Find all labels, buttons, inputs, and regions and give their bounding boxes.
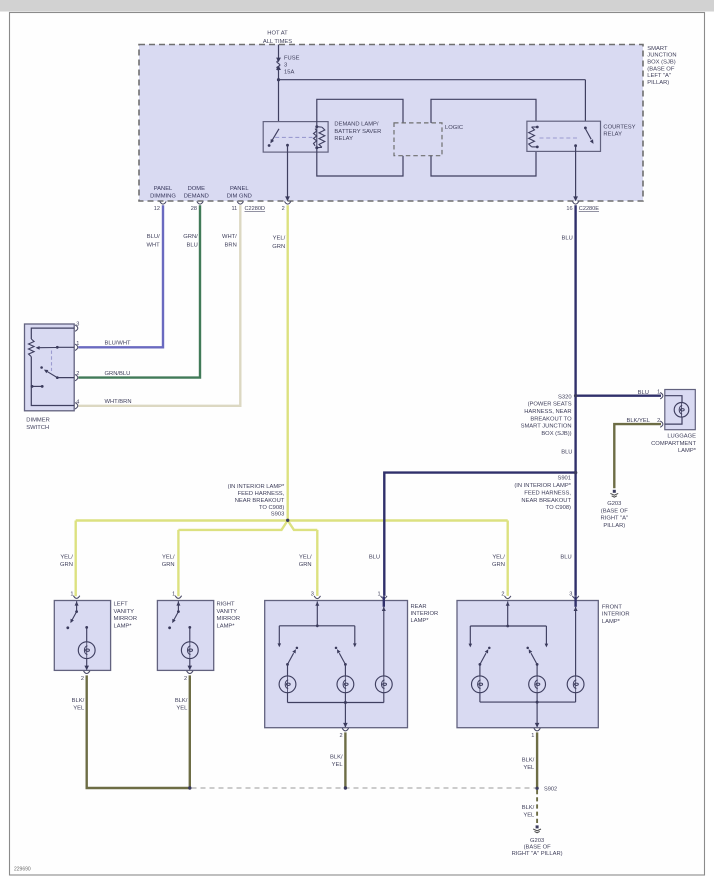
front lamp bulb 2 — [536, 664, 538, 676]
wire BLK/YEL rear lamp to ground bus — [344, 732, 346, 788]
svg-text:(IN INTERIOR LAMP*: (IN INTERIOR LAMP* — [514, 483, 571, 489]
svg-text:PILLAR): PILLAR) — [647, 80, 669, 86]
svg-text:LAMP*: LAMP* — [411, 618, 430, 624]
svg-text:2: 2 — [76, 371, 79, 377]
luggage lamp internal wiring pin 1 — [665, 396, 682, 403]
node: courtesy relay switch output — [574, 144, 577, 147]
svg-text:MIRROR: MIRROR — [217, 616, 241, 622]
svg-text:15A: 15A — [284, 69, 294, 75]
rear lamp pin 3 connector — [314, 596, 320, 599]
wire rheostat bottom to dimmer pin 4 — [31, 357, 74, 406]
front lamp feed from pin 2 — [506, 602, 510, 606]
wire: demand coil bottom to logic — [317, 148, 403, 176]
svg-text:HARNESS, NEAR: HARNESS, NEAR — [524, 409, 571, 415]
courtesy relay switch arm — [585, 128, 591, 139]
svg-text:SWITCH: SWITCH — [26, 425, 49, 431]
rear lamp bulb 1 — [287, 664, 289, 676]
svg-text:GRN: GRN — [272, 244, 285, 250]
pin 11 connector — [237, 201, 243, 204]
ground G203 (right A pillar) — [536, 825, 539, 828]
svg-text:LUGGAGE: LUGGAGE — [667, 434, 696, 440]
svg-text:YEL/: YEL/ — [299, 554, 312, 560]
svg-text:3: 3 — [284, 62, 287, 68]
rear lamp left contact drop — [278, 626, 280, 644]
dimmer pin 1 connector — [75, 344, 78, 350]
rear lamp right contact drop — [354, 626, 356, 644]
svg-text:BATTERY SAVER: BATTERY SAVER — [334, 129, 381, 135]
right vanity bulb feed — [188, 626, 191, 629]
wire: logic to courtesy coil top — [431, 99, 536, 127]
svg-text:DIM GND: DIM GND — [227, 193, 252, 199]
front lamp internal feed rail — [470, 625, 546, 627]
svg-text:C2280D: C2280D — [245, 206, 266, 212]
svg-text:2: 2 — [282, 206, 285, 212]
svg-text:JUNCTION: JUNCTION — [647, 53, 676, 59]
svg-text:3: 3 — [569, 591, 572, 597]
node: ground bus junction at right vanity — [188, 786, 191, 789]
svg-text:REAR: REAR — [411, 604, 427, 610]
luggage lamp bulb — [674, 403, 689, 418]
dimmer switch box — [25, 324, 75, 411]
wire BLK/YEL luggage pin 2 to ground — [614, 424, 661, 488]
rear lamp ground rail — [287, 693, 289, 703]
svg-text:VANITY: VANITY — [217, 609, 238, 615]
svg-text:12: 12 — [154, 206, 160, 212]
splice S903 — [286, 519, 289, 522]
svg-text:3: 3 — [76, 322, 79, 328]
svg-text:VANITY: VANITY — [114, 609, 135, 615]
wire YEL/GRN main run left vanity to front interior lamp — [76, 519, 508, 521]
svg-text:LAMP*: LAMP* — [217, 624, 236, 630]
svg-text:YEL: YEL — [332, 762, 344, 768]
svg-text:BLU: BLU — [560, 554, 571, 560]
svg-text:1: 1 — [70, 591, 73, 597]
rear lamp pin 1 connector — [381, 596, 387, 599]
right vanity pin 1 connector — [175, 596, 181, 599]
svg-text:GRN/BLU: GRN/BLU — [105, 371, 131, 377]
svg-text:BLU: BLU — [562, 235, 573, 241]
smart junction box (SJB) — [139, 45, 643, 202]
svg-text:GRN: GRN — [162, 562, 175, 568]
svg-text:MIRROR: MIRROR — [114, 616, 138, 622]
demand relay switch arm — [272, 129, 279, 141]
svg-text:RIGHT: RIGHT — [217, 602, 235, 608]
wire BLK/YEL S902 to ground (dashed) — [536, 790, 538, 824]
svg-text:BLU/WHT: BLU/WHT — [105, 341, 132, 347]
svg-text:BLU: BLU — [369, 554, 380, 560]
wire: feed rail to courtesy relay — [279, 79, 586, 81]
rear lamp switch 2 — [344, 663, 347, 666]
svg-text:S901: S901 — [557, 476, 571, 482]
svg-text:DOME: DOME — [188, 186, 206, 192]
luggage lamp internal wiring pin 2 — [665, 417, 682, 424]
left vanity pin 2 connector — [84, 671, 90, 674]
front lamp bulb 3 feed from pin 3 — [574, 596, 576, 607]
svg-text:C2280E: C2280E — [579, 206, 599, 212]
wire YEL/GRN branch to right vanity and rear lamp — [178, 520, 317, 530]
dimmer pin 3 connector — [75, 325, 78, 331]
svg-text:BLU/: BLU/ — [147, 234, 160, 240]
right vanity bulb to pin 2 — [189, 659, 191, 670]
svg-text:WHT: WHT — [146, 242, 160, 248]
left vanity bulb to pin 2 — [86, 659, 88, 670]
svg-text:YEL: YEL — [176, 705, 188, 711]
fuse 3 15A — [276, 58, 281, 63]
svg-text:FEED HARNESS,: FEED HARNESS, — [524, 490, 571, 496]
svg-text:GRN/: GRN/ — [183, 234, 198, 240]
svg-text:BLU: BLU — [638, 390, 649, 396]
svg-text:(BASE OF: (BASE OF — [647, 66, 675, 72]
right vanity mirror lamp box — [157, 601, 213, 671]
luggage compartment lamp box — [665, 390, 696, 430]
right vanity switch arm — [174, 612, 179, 621]
svg-text:RIGHT "A": RIGHT "A" — [601, 516, 629, 522]
wire: drop to demand relay switch — [278, 80, 280, 129]
front lamp pin 2 connector — [505, 596, 511, 599]
wire: battery feed into fuse — [278, 45, 280, 59]
svg-text:229690: 229690 — [14, 867, 31, 873]
courtesy relay switch pivot — [584, 127, 587, 130]
svg-text:YEL: YEL — [73, 705, 85, 711]
svg-text:BOX (SJB)): BOX (SJB)) — [541, 431, 571, 437]
svg-text:G203: G203 — [530, 838, 544, 844]
svg-text:(POWER SEATS: (POWER SEATS — [528, 402, 572, 408]
front lamp ground rail — [479, 693, 481, 702]
svg-text:BLK/: BLK/ — [72, 698, 85, 704]
svg-text:BLK/: BLK/ — [330, 755, 343, 761]
svg-text:FUSE: FUSE — [284, 55, 300, 61]
relay: demand lamp/battery saver relay box — [263, 122, 328, 153]
svg-text:2: 2 — [501, 591, 504, 597]
wire YEL/GRN drop to front interior lamp pin 2 — [507, 521, 509, 596]
svg-text:1: 1 — [531, 733, 534, 739]
svg-text:BLU: BLU — [561, 450, 572, 456]
demand relay switch contact — [268, 144, 271, 147]
front interior lamp box — [457, 601, 598, 728]
left vanity switch contact — [66, 626, 69, 629]
splice S320 — [574, 394, 577, 397]
svg-text:1: 1 — [76, 341, 79, 347]
svg-text:(IN INTERIOR LAMP*: (IN INTERIOR LAMP* — [228, 484, 285, 490]
wire: fuse output — [278, 69, 280, 80]
rear lamp bulb 2 — [344, 664, 346, 676]
left vanity bulb — [78, 642, 95, 659]
svg-text:LAMP*: LAMP* — [678, 448, 697, 454]
svg-text:HOT AT: HOT AT — [267, 31, 288, 37]
svg-text:3: 3 — [311, 591, 314, 597]
svg-text:1: 1 — [172, 591, 175, 597]
left vanity mirror lamp box — [54, 601, 110, 671]
rear lamp pin 2 connector — [342, 728, 348, 731]
svg-text:YEL: YEL — [523, 812, 535, 818]
svg-text:LEFT: LEFT — [114, 602, 129, 608]
svg-text:S903: S903 — [271, 512, 285, 518]
rear lamp bulb 3 feed from pin 1 — [383, 596, 385, 607]
svg-text:YEL/: YEL/ — [162, 554, 175, 560]
svg-text:BRN: BRN — [225, 242, 237, 248]
svg-text:2: 2 — [339, 733, 342, 739]
right vanity pin 2 connector — [187, 671, 193, 674]
svg-text:DEMAND LAMP/: DEMAND LAMP/ — [334, 122, 379, 128]
svg-text:TO C908): TO C908) — [259, 505, 284, 511]
logic module — [394, 123, 442, 156]
dimmer actuator link (dashed) — [51, 351, 53, 372]
rear lamp internal feed rail — [279, 625, 355, 627]
svg-text:PANEL: PANEL — [154, 186, 173, 192]
front lamp bulb 1 — [479, 664, 481, 676]
svg-text:S320: S320 — [558, 394, 572, 400]
splice S901 — [574, 471, 577, 474]
svg-text:YEL/: YEL/ — [60, 554, 73, 560]
wire YEL/GRN drop to left vanity pin 1 — [74, 521, 76, 597]
svg-text:SMART: SMART — [647, 46, 668, 52]
dimmer wiper arm from pin 1 — [57, 346, 74, 348]
svg-text:INTERIOR: INTERIOR — [602, 612, 630, 618]
front lamp switch 2 — [536, 663, 539, 666]
wire GRN/BLU pin 28 to dimmer pin 2 — [78, 205, 200, 377]
wire BLU/WHT pin 12 to dimmer pin 1 — [78, 205, 163, 347]
dimmer off-contact stub — [32, 385, 42, 387]
wire BLU S901 to rear interior lamp pin 1 — [384, 473, 575, 596]
wire BLK/YEL front lamp to splice S902 — [536, 732, 538, 788]
svg-text:1: 1 — [377, 591, 380, 597]
svg-text:WHT/: WHT/ — [222, 234, 237, 240]
svg-text:4: 4 — [76, 399, 79, 405]
right vanity bulb — [181, 642, 198, 659]
node: fuse output junction — [277, 78, 280, 81]
svg-text:NEAR BREAKOUT: NEAR BREAKOUT — [521, 498, 571, 504]
svg-text:GRN: GRN — [492, 562, 505, 568]
svg-text:LAMP*: LAMP* — [602, 619, 621, 625]
dimmer switch arm — [57, 377, 74, 379]
svg-text:11: 11 — [231, 206, 237, 212]
svg-text:YEL/: YEL/ — [273, 236, 286, 242]
right vanity switch feed — [176, 601, 180, 605]
rear lamp pin 2 drop — [344, 703, 346, 727]
wire: demand coil top to logic — [317, 99, 403, 126]
wire: demand relay output to pin 2 — [287, 145, 289, 200]
wire BLK/YEL left vanity to ground bus — [87, 675, 190, 788]
svg-text:WHT/BRN: WHT/BRN — [105, 399, 132, 405]
svg-text:RIGHT "A" PILLAR): RIGHT "A" PILLAR) — [512, 851, 563, 857]
demand relay actuator link (dashed) — [275, 136, 312, 138]
left vanity pin 1 connector — [73, 596, 79, 599]
svg-text:RELAY: RELAY — [334, 136, 353, 142]
svg-text:BLK/: BLK/ — [522, 757, 535, 763]
front lamp pin 1 connector — [534, 728, 540, 731]
svg-text:S902: S902 — [544, 787, 557, 793]
splice S902 — [535, 787, 538, 790]
svg-text:FRONT: FRONT — [602, 605, 622, 611]
svg-text:BLK/: BLK/ — [175, 698, 188, 704]
luggage lamp pin 2 connector — [660, 421, 663, 427]
svg-text:DIMMING: DIMMING — [150, 193, 176, 199]
wire YEL/GRN drop to rear interior lamp pin 3 — [316, 530, 318, 596]
left vanity bulb feed — [85, 626, 88, 629]
svg-text:1: 1 — [657, 390, 660, 396]
node: ground bus junction at rear lamp — [344, 786, 347, 789]
svg-text:YEL: YEL — [523, 765, 535, 771]
rear interior lamp box — [265, 601, 408, 728]
svg-text:BOX (SJB): BOX (SJB) — [647, 60, 675, 66]
pin 28 connector — [197, 201, 203, 204]
front lamp left contact drop — [469, 626, 471, 644]
dimmer rheostat feed from pin 3 — [31, 328, 74, 339]
luggage lamp pin 1 connector — [660, 393, 663, 399]
rear lamp feed from pin 3 — [315, 602, 319, 606]
right vanity switch contact — [168, 626, 171, 629]
svg-text:BREAKOUT TO: BREAKOUT TO — [530, 416, 572, 422]
pin 16 connector — [572, 201, 578, 204]
demand relay coil — [316, 127, 318, 148]
left vanity switch arm — [72, 612, 77, 621]
ground bus (dashed) — [192, 787, 536, 789]
svg-text:BLU: BLU — [187, 242, 198, 248]
wire BLU S320 to luggage lamp pin 1 — [576, 395, 661, 397]
svg-text:TO C908): TO C908) — [546, 505, 571, 511]
svg-text:YEL/: YEL/ — [492, 554, 505, 560]
wire: drop to courtesy relay switch — [584, 80, 586, 128]
svg-text:LAMP*: LAMP* — [114, 624, 133, 630]
ground G203 (luggage) — [613, 490, 616, 493]
svg-text:RELAY: RELAY — [603, 132, 622, 138]
svg-text:BLK/: BLK/ — [522, 805, 535, 811]
wire WHT/BRN pin 11 to dimmer pin 4 — [78, 205, 240, 406]
svg-text:NEAR BREAKOUT: NEAR BREAKOUT — [235, 498, 285, 504]
svg-text:DIMMER: DIMMER — [26, 418, 50, 424]
pin 12 connector — [160, 201, 166, 204]
svg-text:BLK/YEL: BLK/YEL — [626, 418, 650, 424]
front lamp pin 3 connector — [572, 596, 578, 599]
front lamp pin 1 drop — [536, 702, 538, 727]
svg-text:INTERIOR: INTERIOR — [411, 611, 439, 617]
dimmer pin 4 connector — [75, 403, 78, 409]
svg-text:G203: G203 — [607, 501, 621, 507]
svg-text:(BASE OF: (BASE OF — [601, 508, 629, 514]
wire: courtesy output to pin 16 — [575, 146, 577, 201]
dimmer pin 2 connector — [75, 374, 78, 380]
svg-text:LEFT "A": LEFT "A" — [647, 73, 671, 79]
wire: logic to courtesy coil bottom — [431, 147, 536, 176]
svg-text:COURTESY: COURTESY — [603, 124, 635, 130]
dimmer rheostat — [29, 339, 35, 357]
left vanity switch feed — [75, 601, 79, 605]
svg-text:GRN: GRN — [60, 562, 73, 568]
svg-text:16: 16 — [566, 206, 572, 212]
wire BLU pin 16 to front interior lamp pin 3 — [574, 205, 576, 596]
svg-text:GRN: GRN — [299, 562, 312, 568]
svg-text:COMPARTMENT: COMPARTMENT — [651, 441, 696, 447]
rear lamp switch 1 — [286, 663, 289, 666]
svg-text:PILLAR): PILLAR) — [603, 523, 625, 529]
courtesy relay coil — [532, 126, 538, 128]
front lamp switch 1 — [479, 663, 482, 666]
svg-text:ALL TIMES: ALL TIMES — [263, 39, 292, 45]
svg-text:PANEL: PANEL — [230, 186, 249, 192]
courtesy relay actuator link (dashed) — [540, 137, 579, 139]
pin 2 connector — [285, 201, 291, 204]
wire YEL/GRN drop to right vanity pin 1 — [177, 530, 179, 596]
svg-text:2: 2 — [184, 676, 187, 682]
svg-text:DEMAND: DEMAND — [184, 193, 209, 199]
svg-text:(BASE OF: (BASE OF — [524, 845, 552, 851]
wire BLK/YEL right vanity to ground bus — [189, 675, 191, 788]
svg-text:LOGIC: LOGIC — [445, 125, 463, 131]
svg-text:SMART JUNCTION: SMART JUNCTION — [521, 424, 572, 430]
svg-text:FEED HARNESS,: FEED HARNESS, — [238, 491, 285, 497]
node: demand relay switch output — [286, 144, 289, 147]
svg-text:2: 2 — [81, 676, 84, 682]
relay: courtesy relay box — [527, 121, 601, 151]
svg-text:28: 28 — [191, 206, 197, 212]
wire YEL/GRN pin 2 to splice S903 — [287, 205, 289, 520]
front lamp right contact drop — [545, 626, 547, 644]
